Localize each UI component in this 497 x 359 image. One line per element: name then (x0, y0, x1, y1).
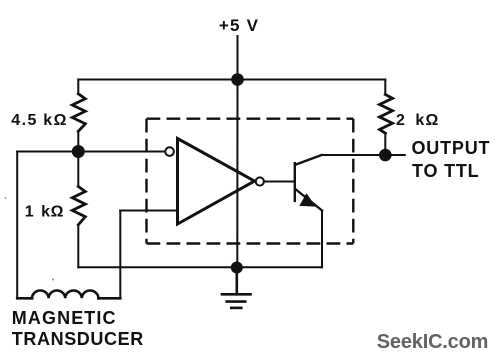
svg-text:+5 V: +5 V (219, 16, 259, 35)
wire: left drop to transducer (16, 152, 18, 299)
inductor L1 magnetic transducer (17, 291, 120, 299)
wire: collector to output node (322, 154, 386, 156)
wire: top supply rail (78, 79, 385, 81)
svg-text:2 kΩ: 2 kΩ (396, 112, 439, 129)
resistor R2 1 kOhm (72, 152, 85, 268)
resistor R1 4.5 kOhm (72, 80, 85, 152)
svg-text:4.5 kΩ: 4.5 kΩ (11, 112, 68, 129)
op-amp U1 (inverter triangle) (178, 139, 255, 225)
wire: emitter drop to bottom rail (321, 211, 323, 268)
svg-text:TRANSDUCER: TRANSDUCER (12, 329, 144, 349)
junction dot at +5V rail (231, 73, 244, 86)
resistor R3 2 kOhm (380, 80, 393, 156)
svg-text:1 kΩ: 1 kΩ (25, 204, 64, 221)
scan speck (5, 197, 7, 199)
input bubble (165, 147, 174, 156)
dashed IC boundary box (147, 119, 354, 244)
svg-text:SeekIC.com: SeekIC.com (377, 331, 488, 353)
wire: transducer up-leg (119, 211, 121, 299)
node A junction dot (divider/input node) (72, 145, 85, 158)
junction dot at ground node (231, 262, 243, 274)
wire: lower input into inverter (120, 210, 177, 212)
svg-text:OUTPUT: OUTPUT (412, 138, 491, 158)
wire: center vertical from rail down to bottom rail (236, 80, 238, 268)
transistor Q1 (295, 155, 322, 211)
junction dot at output node (379, 149, 392, 162)
wire: output stub (385, 154, 405, 156)
wire: bottom rail (1k bottom to emitter drop) (78, 266, 322, 268)
output bubble (256, 177, 264, 185)
svg-text:TO TTL: TO TTL (412, 161, 479, 181)
wire: +5V lead down to top rail (237, 36, 239, 80)
scan speck (52, 279, 54, 281)
ground (222, 268, 251, 308)
wire: node to inverter input bubble (17, 151, 165, 153)
wire: bubble to transistor base (264, 181, 295, 183)
svg-text:MAGNETIC: MAGNETIC (12, 308, 117, 328)
